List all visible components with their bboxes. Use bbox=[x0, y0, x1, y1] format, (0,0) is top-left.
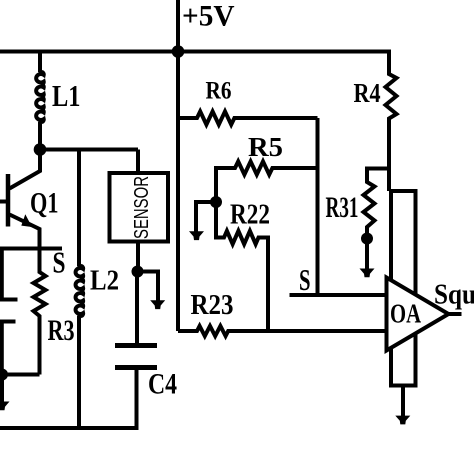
svg-text:R22: R22 bbox=[230, 199, 270, 231]
wire bottom ground rail bbox=[0, 426, 137, 430]
wire left stub capacitor plate upper bbox=[0, 298, 18, 302]
ground below sensor bbox=[150, 300, 165, 309]
node dot below sensor bbox=[132, 266, 144, 278]
svg-text:R5: R5 bbox=[248, 132, 283, 162]
wire sensor bottom lead bbox=[136, 242, 140, 272]
wire +5V vertical rail bbox=[176, 0, 180, 331]
wire vertical from R6 to S input bbox=[316, 118, 320, 295]
wire S stub noninverting input bbox=[292, 293, 387, 297]
wire ground stub left bbox=[0, 375, 4, 403]
ground bottom left bbox=[0, 402, 10, 411]
node dot below R31 bbox=[361, 233, 373, 245]
svg-text:S: S bbox=[53, 245, 66, 280]
wire ground stub right of sensor node bbox=[138, 272, 159, 301]
node dot ground left bbox=[0, 369, 8, 381]
svg-text:L1: L1 bbox=[52, 78, 81, 113]
svg-text:L2: L2 bbox=[90, 265, 119, 297]
svg-text:Squ: Squ bbox=[434, 279, 474, 311]
resistor R23 and inverting input wire bbox=[178, 326, 387, 336]
sensor box bbox=[110, 173, 169, 242]
wire ground stub below box bbox=[401, 386, 405, 417]
transistor Q1 emitter lead bbox=[10, 215, 40, 249]
svg-text:C4: C4 bbox=[148, 368, 177, 401]
node collector junction dot bbox=[34, 143, 47, 156]
wire top +5V rail horizontal bbox=[0, 50, 389, 54]
wire left vertical to ground node bbox=[0, 322, 4, 375]
node dot R5/R22 bbox=[210, 196, 222, 208]
resistor R6 bbox=[178, 111, 318, 124]
svg-text:SENSOR: SENSOR bbox=[131, 176, 153, 239]
transistor Q1 collector lead bbox=[10, 150, 41, 189]
wire Q1 base lead bbox=[0, 200, 8, 204]
resistor R4 bbox=[386, 52, 397, 192]
resistor R3 bbox=[34, 249, 46, 375]
op-amp OA bbox=[387, 278, 449, 351]
svg-text:OA: OA bbox=[390, 299, 421, 329]
wire ground stub left of dot bbox=[196, 202, 216, 232]
capacitor C4 top plate bbox=[115, 343, 157, 348]
svg-text:R31: R31 bbox=[326, 191, 359, 224]
svg-text:Q1: Q1 bbox=[30, 187, 59, 220]
ground left of R22 bbox=[189, 231, 204, 240]
svg-text:R3: R3 bbox=[48, 314, 75, 347]
wire sensor top lead bbox=[136, 150, 140, 174]
wire S node emitter bbox=[0, 247, 62, 251]
svg-text:+5V: +5V bbox=[182, 1, 235, 33]
resistor R5 bbox=[216, 161, 318, 202]
node junction dot +5V bbox=[172, 45, 185, 58]
transistor Q1 emitter arrow bbox=[21, 214, 32, 227]
box behind op-amp bbox=[391, 191, 416, 386]
inductor L2 bbox=[76, 150, 84, 429]
svg-text:R23: R23 bbox=[191, 290, 234, 321]
svg-text:S: S bbox=[299, 262, 311, 297]
ground below R31 bbox=[360, 269, 375, 278]
wire collector node to sensor bbox=[40, 148, 138, 152]
wire left vertical from S wire to capacitor bbox=[0, 249, 4, 300]
wire C4 top lead bbox=[135, 272, 139, 344]
wire left stub capacitor plate lower bbox=[0, 320, 16, 324]
svg-text:R4: R4 bbox=[354, 78, 381, 108]
svg-text:R6: R6 bbox=[206, 78, 232, 105]
resistor R22 bbox=[216, 202, 268, 331]
wire R3 bottom to ground node bbox=[2, 373, 40, 377]
resistor R31 bbox=[364, 169, 390, 269]
wire op-amp output bbox=[449, 312, 462, 316]
inductor L1 bbox=[36, 52, 44, 150]
transistor Q1 base bar bbox=[6, 174, 11, 227]
ground below box bbox=[395, 416, 410, 425]
capacitor C4 bottom plate bbox=[115, 365, 157, 370]
wire C4 bottom lead bbox=[135, 370, 139, 429]
